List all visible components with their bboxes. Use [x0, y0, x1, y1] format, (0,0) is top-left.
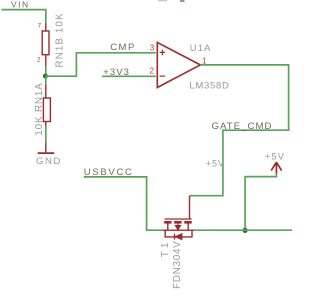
wire VIN horizontal and down to RN1B	[2, 10, 46, 23]
svg-text:2: 2	[37, 56, 41, 63]
svg-text:FDN304V: FDN304V	[172, 241, 183, 289]
transistor T1 channel bar 1	[164, 221, 171, 224]
resistor RN1A pin stub bottom	[45, 122, 47, 127]
ground bar	[38, 152, 55, 154]
svg-text:GND: GND	[36, 156, 62, 167]
transistor T1 drain stub	[187, 224, 189, 231]
wire +5V down to output rail	[245, 174, 276, 230]
svg-text:7: 7	[38, 23, 42, 30]
resistor RN1A body	[43, 98, 50, 122]
svg-text:T1: T1	[160, 240, 171, 258]
wire RN1A to GND	[45, 127, 47, 143]
transistor T1 channel bar 2	[174, 221, 181, 224]
transistor T1 bulk arrow	[176, 224, 181, 230]
op-amp U1A triangle	[157, 42, 200, 87]
resistor RN1B pin stub bottom	[45, 55, 47, 66]
svg-text:10K RN1A: 10K RN1A	[34, 82, 45, 135]
svg-text:LM358D: LM358D	[189, 80, 229, 91]
op-amp plus input marker	[160, 50, 166, 56]
ground pin stub	[45, 142, 47, 152]
resistor RN1A pin stub top	[45, 84, 47, 98]
transistor T1 source-drain rail	[162, 229, 193, 231]
transistor T1 body diode loop	[165, 230, 192, 237]
wire +3V3 to inverting input	[102, 75, 156, 77]
op-amp minus input marker	[160, 75, 166, 77]
resistor RN1B body	[42, 31, 49, 55]
transistor T1 source stub	[167, 224, 169, 231]
transistor T1 gate pin stub	[189, 196, 191, 219]
svg-text:U1A: U1A	[190, 43, 212, 54]
wire RN1B bottom to junction	[45, 66, 47, 76]
svg-text:GATE_CMD: GATE_CMD	[212, 121, 273, 132]
wire junction to RN1A	[45, 76, 47, 84]
svg-text:CMP: CMP	[110, 42, 136, 53]
wire crop remnant top edge	[180, 0, 185, 2]
svg-text:RN1B 10K: RN1B 10K	[55, 12, 66, 67]
wire USBVCC to transistor source	[84, 177, 163, 230]
svg-text:2: 2	[150, 67, 155, 76]
svg-text:+5V: +5V	[206, 159, 225, 169]
transistor T1 gate bar	[165, 218, 192, 220]
wire op-amp output to GATE_CMD to gate	[190, 65, 289, 196]
svg-text:VIN: VIN	[11, 0, 30, 9]
transistor T1 body diode triangle	[175, 234, 182, 240]
junction node +5V rail	[243, 228, 248, 233]
supply symbol +5V arrow	[271, 162, 281, 174]
resistor RN1B pin stub top	[45, 23, 47, 31]
wire transistor drain to +5V rail	[194, 229, 293, 231]
wire junction to comparator input (CMP net)	[45, 53, 155, 76]
transistor T1 channel bar 3	[184, 221, 191, 224]
transistor T1 body diode cathode bar	[174, 234, 176, 240]
svg-text:+5V: +5V	[265, 151, 285, 162]
junction node CMP divider	[43, 74, 48, 79]
svg-text:3: 3	[150, 44, 155, 53]
svg-text:+3V3: +3V3	[103, 67, 130, 78]
